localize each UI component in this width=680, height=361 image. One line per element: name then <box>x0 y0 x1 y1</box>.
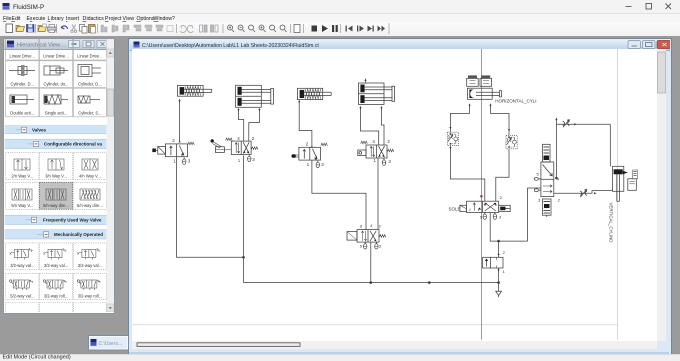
open <box>16 26 25 32</box>
proximity sensors on HORIZONTAL_CYLI <box>467 75 492 86</box>
wire valve V2 port1 down to supply bus <box>243 156 245 283</box>
cut (grey) <box>72 25 76 31</box>
svg-text:1: 1 <box>173 158 176 163</box>
valve SOLE 5/2-way solenoid <box>460 201 510 212</box>
svg-text:5/n-way dire...: 5/n-way dire... <box>77 203 103 208</box>
stop <box>312 26 318 32</box>
svg-text:C:\Users...: C:\Users... <box>99 341 123 347</box>
svg-text:2: 2 <box>306 141 309 146</box>
svg-text:5: 5 <box>480 214 483 219</box>
valve V1 3/2-way <box>152 144 187 157</box>
svg-text:Linear Drive ..: Linear Drive .. <box>77 54 102 59</box>
wire FC2 to SOLE valve port2 <box>496 149 509 201</box>
new <box>6 24 13 33</box>
svg-text:1: 1 <box>373 158 376 163</box>
cylinder A3 single-acting <box>297 88 331 99</box>
svg-text:Frequently Used Way Valve: Frequently Used Way Valve <box>43 218 102 223</box>
wire valve V6 port2 to vertical cylinder bottom port <box>554 191 613 194</box>
spring indicator above valve V2 <box>226 138 233 141</box>
grayed group 2 <box>180 25 218 32</box>
cylinder VERTICAL_CYLIND <box>613 166 624 201</box>
exhaust muffler valve V3 <box>317 161 319 163</box>
air service unit <box>483 257 503 268</box>
svg-text:4: 4 <box>557 176 560 181</box>
sensor on VERTICAL_CYLIND <box>628 170 638 190</box>
wire FC1 to SOLE valve port4 <box>450 146 484 202</box>
svg-text:1: 1 <box>503 269 506 274</box>
cylinder HORIZONTAL_CYLI double-acting <box>467 88 501 99</box>
wire upper branch horizontal <box>556 123 610 125</box>
svg-text:2: 2 <box>379 224 382 229</box>
svg-text:HORIZONTAL_CYLI: HORIZONTAL_CYLI <box>495 98 536 103</box>
wire cyl4 top stub <box>365 79 367 83</box>
node node V6 right port <box>555 177 558 180</box>
wire cyl4 left port to V4 port4 <box>361 106 379 145</box>
svg-text:1: 1 <box>307 162 310 167</box>
wire down to vertical cylinder top port <box>609 124 611 166</box>
node node A <box>242 256 245 259</box>
wire cylH left port to flow control FC1 <box>450 104 469 133</box>
throttle valve upper <box>563 120 570 128</box>
svg-text:5/2-way val...: 5/2-way val... <box>10 293 34 298</box>
wire supply bus <box>244 282 499 284</box>
main window title bar <box>0 0 680 14</box>
arrow above FC2 <box>508 129 510 131</box>
exhaust muffler valve V1 <box>183 157 185 159</box>
svg-text:Configurable directional va: Configurable directional va <box>44 142 103 147</box>
drawing sheet boundary <box>132 49 618 340</box>
svg-text:SOLE: SOLE <box>449 207 461 212</box>
arrow on VERTICAL_CYLIND <box>623 171 628 174</box>
svg-text:3: 3 <box>379 244 382 249</box>
wire valve V5 port1 to supply bus <box>370 242 372 282</box>
svg-text:2: 2 <box>503 250 506 255</box>
pause <box>332 25 334 32</box>
node node bus 2 <box>428 281 431 284</box>
label HORIZONTAL_CYLI <box>495 98 536 103</box>
print <box>48 27 57 31</box>
arrow service unit port1 <box>498 269 500 271</box>
label SOLE <box>449 207 461 212</box>
svg-text:2: 2 <box>172 138 175 143</box>
svg-text:4/n Way V...: 4/n Way V... <box>79 173 101 178</box>
wire valve V4 port1 to valve V5 port2 <box>377 159 379 231</box>
play <box>322 25 328 32</box>
svg-text:3/2-way roll...: 3/2-way roll... <box>44 293 68 298</box>
label VERTICAL_CYLIND <box>609 203 614 243</box>
document window <box>128 38 672 356</box>
exhaust muffler SOLE left <box>484 212 486 214</box>
svg-text:3/2-way val...: 3/2-way val... <box>78 263 102 268</box>
svg-text:4: 4 <box>237 136 240 141</box>
red vertical wire <box>480 49 482 340</box>
wire cyl4 right port to V4 port2 <box>382 106 385 145</box>
toolbar <box>0 22 680 37</box>
one-way flow control FC2 <box>506 135 517 148</box>
flow control label box upper (right group) <box>543 144 551 162</box>
wire upper branch vertical <box>555 124 557 178</box>
valve V4 5/2-way pushbutton <box>358 145 387 158</box>
svg-text:Cylinder, D...: Cylinder, D... <box>11 81 34 86</box>
mufflers valve V6 <box>534 178 541 192</box>
magnifier suite <box>228 25 287 32</box>
svg-text:3/2-way val...: 3/2-way val... <box>44 263 68 268</box>
svg-text:Cylinder, D...: Cylinder, D... <box>78 81 101 86</box>
svg-text:3/2-way val...: 3/2-way val... <box>10 263 34 268</box>
svg-text:3/n Way V...: 3/n Way V... <box>45 173 67 178</box>
open project <box>38 26 47 32</box>
svg-text:5: 5 <box>537 171 540 176</box>
svg-text:3: 3 <box>499 215 502 220</box>
svg-text:Linear Drive ..: Linear Drive .. <box>43 54 68 59</box>
svg-text:5/n-way dire...: 5/n-way dire... <box>43 203 69 208</box>
svg-text:3: 3 <box>321 162 324 167</box>
cylinder A1 single-acting <box>177 86 211 97</box>
minimized child window <box>88 335 129 351</box>
valve V6 3/2-way vertical <box>541 162 554 197</box>
svg-text:Edit Mode (Circuit changed): Edit Mode (Circuit changed) <box>3 355 71 360</box>
svg-text:6: 6 <box>360 224 363 229</box>
svg-text:3: 3 <box>252 157 255 162</box>
svg-text:2: 2 <box>558 197 561 202</box>
exhaust muffler valve V2 <box>248 155 250 157</box>
svg-text:3: 3 <box>538 197 541 202</box>
wire supply riser to valve V6 <box>528 188 541 241</box>
svg-text:2: 2 <box>387 139 390 144</box>
svg-text:FluidSIM-P: FluidSIM-P <box>13 4 44 11</box>
throttle valve lower <box>580 189 587 197</box>
svg-text:Linear Drive ..: Linear Drive .. <box>10 54 35 59</box>
wire cyl1 to valve V1 port2 <box>179 99 181 143</box>
grayed align group <box>101 25 173 32</box>
save <box>27 25 35 33</box>
spring of valve V4 <box>387 149 394 152</box>
undo <box>61 26 68 29</box>
spring of valve V3 <box>321 143 328 146</box>
left library panel <box>3 38 115 314</box>
arrow below FC1 <box>449 147 451 149</box>
exhaust muffler valve V4 <box>383 158 385 160</box>
svg-text:Mechanically Operated: Mechanically Operated <box>54 232 103 237</box>
node node supply tee <box>497 240 500 243</box>
svg-text:Cylinder, S...: Cylinder, S... <box>78 111 101 116</box>
paste <box>89 25 96 33</box>
cylinder A2 dual-piston <box>236 85 274 107</box>
wire cylH right port to flow control FC2 <box>491 104 510 135</box>
wire service unit to air source <box>498 268 500 291</box>
svg-text:3: 3 <box>188 158 191 163</box>
spring of valve V2 <box>251 147 258 150</box>
valve V3 3/2-way pushbutton <box>292 147 321 160</box>
svg-text:Single acti...: Single acti... <box>45 111 67 116</box>
wire SOLE valve port1 to supply riser <box>490 213 527 241</box>
exhaust muffler SOLE right <box>494 212 496 214</box>
wire cyl2 left port to V2 port4 <box>239 108 244 141</box>
svg-text:3/2-way roll...: 3/2-way roll... <box>78 293 102 298</box>
valve V5 5/2-way pilot <box>347 230 379 243</box>
spring of valve V5 <box>379 235 386 238</box>
arrowhead upper branch <box>555 118 557 120</box>
page icon <box>294 25 300 33</box>
wire cyl2 right port to V2 port2 <box>249 108 260 141</box>
node junction on red wire <box>480 195 483 198</box>
svg-text:4: 4 <box>372 139 375 144</box>
svg-text:4: 4 <box>370 223 373 228</box>
svg-text:VERTICAL_CYLIND: VERTICAL_CYLIND <box>609 203 614 243</box>
spring indicator above valve V4 <box>361 141 368 144</box>
svg-text:Hierarchical View ...: Hierarchical View ... <box>17 43 67 49</box>
solenoid box below valve V6 <box>543 199 552 217</box>
svg-text:Cylinder, do...: Cylinder, do... <box>43 81 68 86</box>
svg-text:3: 3 <box>388 159 391 164</box>
node node bus-supply junction <box>497 281 500 284</box>
svg-text:5: 5 <box>360 244 363 249</box>
exhaust muffler valve V5 right <box>375 242 377 244</box>
menu bar <box>0 14 680 22</box>
svg-text:2/n Way V...: 2/n Way V... <box>11 173 33 178</box>
step buttons <box>346 26 386 32</box>
svg-text:5/n Way V...: 5/n Way V... <box>11 203 33 208</box>
exhaust muffler valve V5 left <box>364 242 366 244</box>
svg-text:Double acti...: Double acti... <box>10 111 34 116</box>
cylinder A4 dual-piston <box>359 83 395 105</box>
copy <box>80 25 85 32</box>
svg-text:1: 1 <box>238 158 241 163</box>
node node bus 1 <box>370 281 373 284</box>
status bar <box>0 354 680 361</box>
wire valve V1 port1 to node A <box>177 157 244 257</box>
compressed air source <box>496 291 502 295</box>
arrow service unit port2 <box>498 253 500 255</box>
arrow above FC1 <box>449 127 451 129</box>
wire tee down to service unit <box>498 241 500 257</box>
svg-text:2: 2 <box>252 136 255 141</box>
svg-text:Valves: Valves <box>32 128 47 133</box>
wire valve V3 port1 to valve V5 port4 <box>312 160 366 230</box>
svg-text:2: 2 <box>500 195 503 200</box>
wire cyl3 to valve V3 port2 <box>299 100 312 147</box>
valve V2 5/2-way roller lever <box>211 139 252 154</box>
spring of valve V1 <box>188 142 195 145</box>
one-way flow control FC1 <box>447 132 458 145</box>
